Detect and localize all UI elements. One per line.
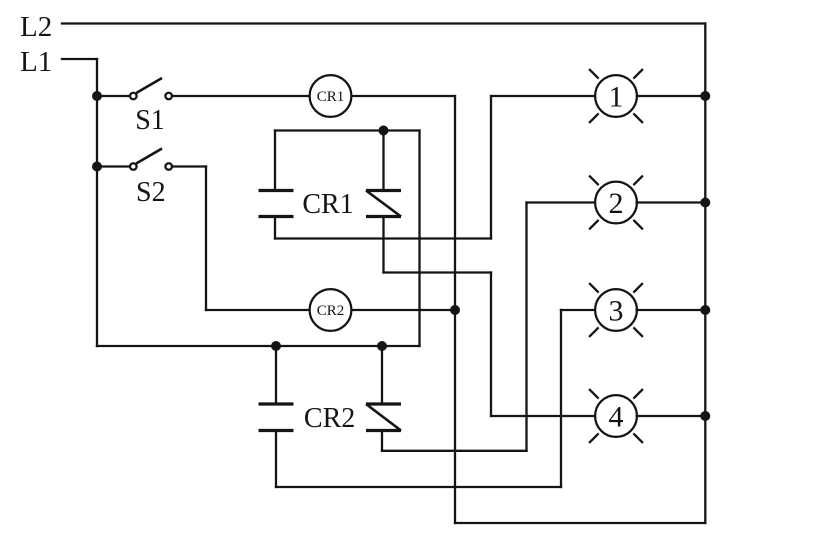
switch S2 — [130, 149, 172, 170]
wire right rail (L2 bus) — [704, 24, 706, 524]
contact CR1 NC top lead — [382, 131, 384, 191]
node junction L1/S2 — [92, 162, 102, 172]
wire S2 riser down to coil CR2 row — [205, 167, 207, 311]
contact CR1 NO (normally open) — [259, 191, 294, 217]
wire lamp2 riser — [525, 203, 527, 451]
lamp 3 — [589, 283, 643, 337]
svg-text:CR2: CR2 — [317, 303, 345, 319]
wire S2 out — [173, 165, 207, 167]
contact CR2 NC (normally closed) — [366, 404, 401, 431]
node junction coil returns — [450, 305, 460, 315]
node junction L1 run / CR2 NC branch — [377, 341, 387, 351]
node junction lamp4 / rail — [700, 411, 710, 421]
wire L1 lead — [62, 58, 97, 60]
wire lamp1 to rail — [637, 95, 705, 97]
lamp 1 — [589, 69, 643, 123]
wire left rail (L1 bus) — [96, 59, 98, 346]
node junction lamp2 / rail — [700, 198, 710, 208]
svg-text:L1: L1 — [20, 46, 52, 78]
svg-text:3: 3 — [609, 295, 624, 328]
wire lamp4 to rail — [637, 415, 705, 417]
wire lamp3 riser — [560, 310, 562, 487]
wire lamp1 riser — [490, 96, 492, 239]
svg-text:1: 1 — [609, 81, 624, 114]
wire lamp4 row — [491, 415, 595, 417]
svg-text:S2: S2 — [136, 177, 166, 208]
wire coil return riser — [454, 96, 456, 523]
node junction lamp1 / rail — [700, 91, 710, 101]
contact CR1 NO top lead — [274, 131, 276, 191]
wire lamp1 feed run — [275, 237, 491, 239]
wire lamp4 feed riser — [490, 273, 492, 417]
contact CR2 NO (normally open) — [259, 404, 294, 431]
wire lamp3 row — [561, 309, 595, 311]
svg-text:2: 2 — [609, 187, 624, 220]
switch S1 — [130, 78, 172, 99]
svg-text:L2: L2 — [20, 11, 52, 43]
wire to coil CR2 — [206, 309, 309, 311]
svg-text:4: 4 — [609, 401, 624, 434]
lamp 4 — [589, 389, 643, 443]
wire lamp2 row — [527, 201, 596, 203]
relay coil CR1 — [310, 75, 352, 117]
wire CR1 contact bank top — [275, 129, 420, 131]
wire lamp1 row — [491, 95, 595, 97]
contact CR2 NC top lead — [381, 346, 383, 404]
wire coil CR2 to return riser — [352, 309, 455, 311]
wire coil CR1 to return riser — [352, 95, 455, 97]
svg-text:S1: S1 — [135, 105, 165, 136]
contact CR2 NO top lead — [275, 346, 277, 404]
node junction CR1 bank top / NC branch — [379, 126, 389, 136]
relay coil CR2 — [310, 289, 352, 331]
wire lamp3 to rail — [637, 309, 705, 311]
wire L1 bottom run — [97, 345, 420, 347]
svg-text:CR1: CR1 — [302, 189, 353, 220]
wire L1 to S2 — [97, 165, 130, 167]
contact CR1 NO bottom lead — [274, 217, 276, 239]
wire bottom return run — [455, 522, 705, 524]
wire lamp4 feed run — [384, 271, 492, 273]
node junction L1/S1 — [92, 91, 102, 101]
wire lamp3 feed run — [276, 486, 561, 488]
wire lamp2 feed run — [382, 450, 527, 452]
wire lamp2 to rail — [637, 201, 705, 203]
svg-text:CR1: CR1 — [317, 89, 345, 105]
node junction L1 run / CR2 NO branch — [271, 341, 281, 351]
wire riser to CR1 contact bank — [418, 131, 420, 347]
wire S1 to coil CR1 — [173, 95, 310, 97]
contact CR2 NO bottom lead — [275, 431, 277, 488]
node junction lamp3 / rail — [700, 305, 710, 315]
wire L2 top run — [62, 22, 705, 24]
contact CR2 NC bottom lead — [381, 431, 383, 451]
svg-text:CR2: CR2 — [304, 403, 355, 434]
contact CR1 NC (normally closed) — [366, 191, 401, 217]
lamp 2 — [589, 176, 643, 230]
wire L1 to S1 — [97, 95, 130, 97]
contact CR1 NC bottom lead — [382, 217, 384, 273]
